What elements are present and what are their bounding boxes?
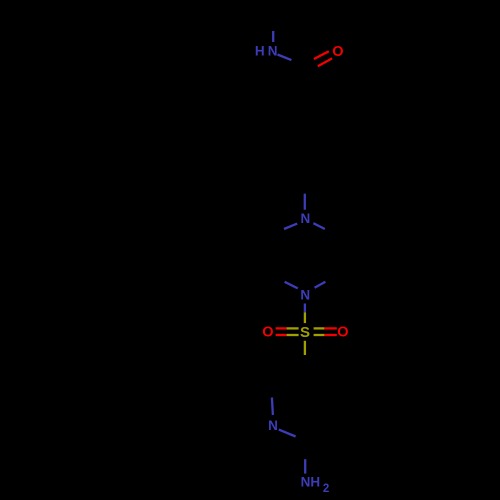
svg-text:2: 2 — [323, 483, 329, 495]
wire: phenyl C to piperazine N1 half-bond — [304, 194, 306, 210]
wire: carbonyl C=O double bond O-half line 2 — [318, 58, 332, 66]
wire: right S=O double bond S-half line 2 — [314, 334, 325, 336]
svg-text:O: O — [262, 324, 273, 340]
wire: amide N to carbonyl C half-bond — [278, 55, 292, 61]
svg-text:O: O — [332, 44, 343, 60]
wire: left S=O double bond O-half line 2 — [276, 334, 287, 336]
wire: methyl C to amide N half-bond — [272, 31, 274, 42]
wire: piperazine N1 to C6 half-bond — [284, 224, 297, 229]
wire: left S=O double bond O-half line 1 — [276, 327, 287, 329]
svg-text:N: N — [300, 288, 310, 303]
wire: piperazine C3 to N4 half-bond — [315, 282, 326, 288]
wire: pyridine N1 to C2 half-bond — [279, 430, 296, 437]
svg-text:N: N — [268, 418, 278, 433]
svg-text:NH: NH — [301, 474, 321, 489]
wire: carbonyl C=O double bond O-half line 1 — [314, 51, 329, 59]
wire: left S=O double bond S-half line 2 — [287, 334, 299, 336]
svg-text:H: H — [255, 44, 265, 59]
wire: right S=O double bond O-half line 1 — [324, 327, 336, 329]
wire: S to pyridine C5 half-bond — [304, 341, 306, 355]
wire: right S=O double bond S-half line 1 — [314, 327, 325, 329]
svg-text:N: N — [301, 211, 311, 226]
wire: piperazine N1 to C2 half-bond — [313, 223, 324, 229]
wire: piperazine N4 to S bond N-half — [304, 304, 306, 313]
wire: pyridine C2 to amine N half-bond — [304, 459, 306, 473]
wire: piperazine C5 to N4 half-bond — [285, 282, 298, 289]
node NH2: amino group label — [301, 474, 330, 494]
wire: pyridine C6 to N1 half-bond — [272, 398, 273, 416]
wire: left S=O double bond S-half line 1 — [287, 327, 299, 329]
svg-text:S: S — [300, 324, 310, 341]
svg-text:N: N — [268, 44, 278, 59]
wire: piperazine N4 to S bond S-half — [304, 313, 306, 324]
svg-text:O: O — [337, 324, 348, 340]
wire: right S=O double bond O-half line 2 — [324, 334, 336, 336]
